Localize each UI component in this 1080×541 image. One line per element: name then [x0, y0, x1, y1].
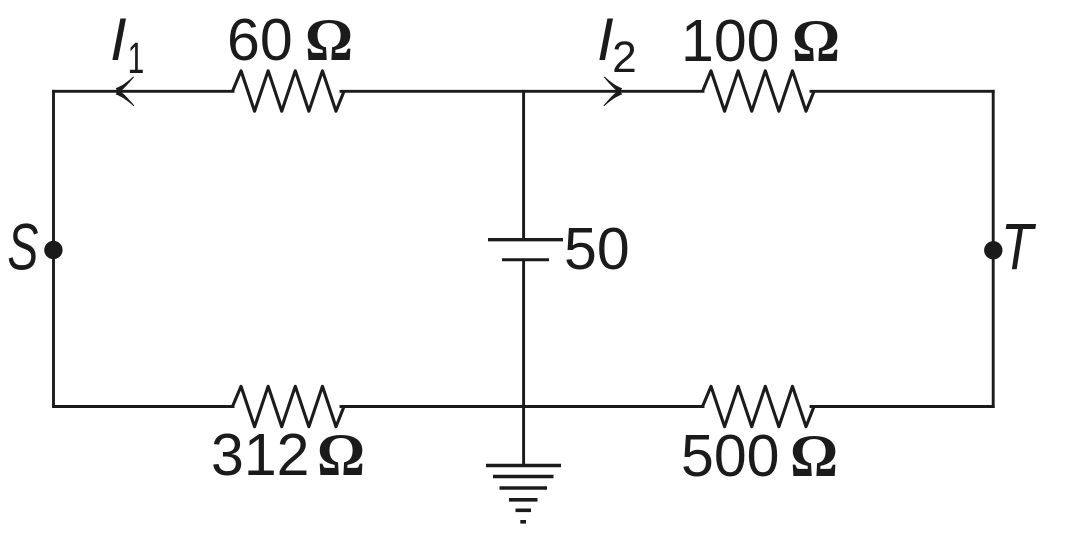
svg-text:I: I	[597, 6, 614, 73]
svg-text:S: S	[7, 210, 38, 284]
svg-text:312: 312	[211, 422, 309, 488]
svg-text:I: I	[110, 6, 127, 73]
svg-text:Ω: Ω	[305, 7, 353, 73]
svg-text:100: 100	[681, 8, 779, 74]
svg-text:500: 500	[681, 423, 779, 489]
svg-text:Ω: Ω	[790, 423, 838, 489]
svg-text:Ω: Ω	[792, 8, 840, 74]
svg-text:60: 60	[227, 7, 293, 73]
svg-text:Ω: Ω	[317, 422, 365, 488]
svg-text:T: T	[1001, 210, 1037, 284]
svg-text:50: 50	[564, 216, 630, 282]
